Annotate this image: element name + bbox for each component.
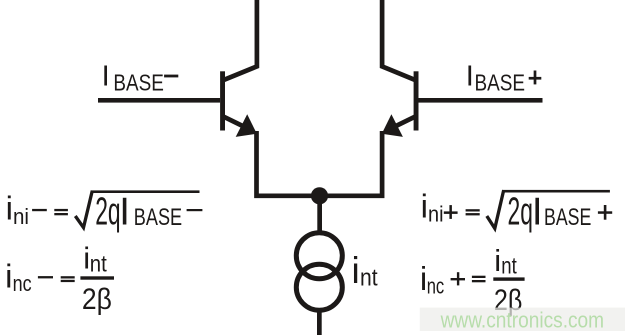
svg-text:nc: nc xyxy=(427,274,445,299)
svg-text:BASE: BASE xyxy=(475,70,526,96)
transistor Q1 emitter arrow xyxy=(236,114,257,137)
wire: Q2 emitter diagonal xyxy=(394,114,417,129)
wire: node to current source xyxy=(317,196,322,234)
equation: ini- = sqrt(2q IBASE-) xyxy=(6,190,203,234)
transistor Q2 emitter arrow xyxy=(382,114,403,137)
svg-text:2β: 2β xyxy=(82,283,112,316)
svg-text:I: I xyxy=(532,191,543,234)
equation: inc- = int / 2beta xyxy=(5,241,114,316)
svg-text:ni: ni xyxy=(13,204,29,229)
svg-text:i: i xyxy=(352,250,360,291)
label: tail current int xyxy=(352,250,378,292)
svg-text:BASE: BASE xyxy=(113,70,163,96)
svg-text:BASE: BASE xyxy=(544,204,591,231)
transistor Q1 base bar xyxy=(220,71,225,130)
svg-text:nt: nt xyxy=(501,253,517,279)
wire: Q2 base lead xyxy=(419,98,543,103)
wire: Q2 emitter lead down and across to node xyxy=(320,131,383,196)
equation: inc+ = int / 2beta xyxy=(420,243,525,317)
wire: Q1 emitter lead down and across to node xyxy=(257,131,320,196)
svg-text:nt: nt xyxy=(90,250,108,276)
svg-text:2q: 2q xyxy=(95,191,120,234)
equation: ini+ = sqrt(2q IBASE+) xyxy=(421,188,613,234)
wire: Q1 base lead xyxy=(98,98,220,103)
label: Q2 base current IBASE+ xyxy=(466,61,542,96)
wire: Q2 collector lead (vertical + diagonal to base bar) xyxy=(382,0,415,80)
svg-text:BASE: BASE xyxy=(134,204,182,231)
wire: current source to bottom rail xyxy=(317,310,322,335)
svg-text:i: i xyxy=(6,190,13,227)
label: Q1 base current IBASE- xyxy=(102,61,179,96)
svg-text:i: i xyxy=(494,243,501,278)
svg-text:nt: nt xyxy=(360,264,378,291)
watermark band xyxy=(420,308,625,331)
node: emitter junction dot xyxy=(311,187,328,204)
svg-text:nc: nc xyxy=(13,271,32,296)
transistor Q2 base bar xyxy=(414,71,419,130)
svg-text:www.cntronics.com: www.cntronics.com xyxy=(440,307,604,332)
svg-text:ni: ni xyxy=(428,202,444,227)
svg-text:i: i xyxy=(421,188,428,225)
svg-text:i: i xyxy=(5,258,12,295)
svg-text:I: I xyxy=(119,191,130,234)
wire: Q1 emitter diagonal xyxy=(222,114,245,129)
wire: Q1 collector lead (vertical + diagonal to base bar) xyxy=(224,0,257,80)
svg-text:2q: 2q xyxy=(508,191,533,234)
svg-text:I: I xyxy=(102,61,110,93)
current source Int (two overlapping circles) xyxy=(296,233,342,311)
svg-text:I: I xyxy=(466,61,474,93)
